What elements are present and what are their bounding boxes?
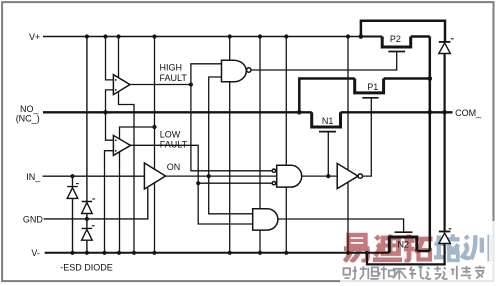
char xun [463, 235, 490, 262]
wire comparator U1 minus input to NO_ and U2 plus input [106, 90, 114, 140]
svg-text:-ESD DIODE: -ESD DIODE [60, 262, 113, 272]
junction V- / U2 supply [117, 251, 121, 255]
label watermark char she2 [426, 266, 441, 279]
svg-text:N2: N2 [398, 240, 410, 250]
svg-text:N1: N1 [322, 116, 334, 126]
transistor P2 source lead [361, 36, 382, 38]
char di [373, 236, 402, 260]
AND gate U6 [253, 209, 278, 230]
diode D2 ESD GND to V+ [82, 37, 93, 219]
node LOW FAULT junction [196, 181, 200, 185]
junction V+ / U2 U3 supply [152, 34, 156, 38]
buffer U3 ON [144, 163, 165, 189]
wire AND U6 output to N2 gate [278, 219, 404, 232]
wire HIGH FAULT column to NAND input and AND U5 input [191, 64, 272, 171]
node COM_ line [341, 111, 453, 113]
transistor P2 channel [382, 37, 411, 48]
label watermark char he [377, 266, 395, 279]
svg-text:COM_: COM_ [455, 108, 482, 118]
junction V+ / U7 supply [346, 34, 350, 38]
junction COM_ / clamp diodes [442, 110, 447, 115]
wire P2 P1 drain column to COM_ and N2 [429, 37, 432, 252]
char pei [434, 234, 460, 258]
wire inverter output up to P1 gate [363, 98, 372, 176]
wire U1 supply V+ down and V- jog [119, 37, 135, 253]
wire U1 output to HIGH FAULT node [130, 84, 191, 86]
svg-text:NO_: NO_ [20, 104, 40, 114]
svg-text:V-: V- [31, 248, 40, 258]
comparator input polarity marks [115, 79, 117, 151]
node GND rail [44, 188, 148, 219]
label watermark char tian [393, 269, 407, 280]
circuit line work [43, 37, 404, 253]
junction V+ / U1 supply [116, 34, 120, 38]
diode D4 anode to COM_ [444, 54, 446, 113]
diode D5 bottom clamp to V- [439, 231, 451, 233]
diode D5 to V- rail [444, 244, 446, 254]
wire LOW FAULT branch into U5 lower bubble [198, 182, 272, 184]
junction V- / D5 bypass [365, 251, 369, 255]
gate symbols drawn over supply columns [113, 60, 362, 230]
wire U2 supply V+ horizontal and down [120, 127, 155, 253]
svg-text:FAULT: FAULT [160, 73, 188, 83]
watermark line2 white backing (over circuit) [340, 221, 496, 286]
wire ON buffer supply column V+ to V- [154, 37, 156, 253]
transistor P1 drain lead [384, 77, 430, 80]
comparator U2 LOW FAULT [113, 135, 130, 155]
junction V- / U2 minus input [102, 251, 106, 255]
diode D3 ESD V- to GND [82, 219, 93, 253]
svg-text:GND: GND [23, 214, 44, 224]
junction V+ / P2 source [359, 34, 364, 39]
watermark logo line1 characters (under circuit) [344, 234, 490, 262]
label watermark char jia [475, 266, 485, 279]
wire U5 output to inverter and N1 gate [302, 132, 338, 177]
node V- rail [45, 252, 390, 254]
wire NAND U4 supply column [229, 37, 231, 253]
node NO_ rail [43, 111, 312, 113]
label watermark char she [344, 266, 358, 279]
node IN_ rail [43, 175, 145, 177]
svg-text:ON: ON [167, 162, 181, 172]
wire V- bypass to bottom diode D5 anode [367, 252, 445, 265]
diode D4 top clamp to V+ [439, 41, 451, 43]
wire ON output to NAND lower input and AND U6 upper input [209, 77, 253, 214]
junction V+ / U5 supply [284, 34, 288, 38]
wire U2 output LOW FAULT to AND U5 and AND U6 [131, 145, 253, 224]
thick switch-path wiring [299, 21, 452, 254]
transistor P1 gate bar [362, 97, 378, 99]
junction GND / D2 D3 [85, 217, 89, 221]
diode D1 ESD at IN_ [67, 176, 78, 253]
node N1 gate drive junction [326, 174, 330, 178]
junction V- / U1 supply [132, 251, 136, 255]
junction NO_ / comparator inputs [103, 110, 107, 114]
transistor P2 drain lead [411, 35, 430, 38]
junction NO_ / P1 source [297, 110, 302, 115]
node ON junction [207, 174, 211, 178]
transistor P2 gate bar [388, 51, 405, 53]
node HIGH FAULT junction [189, 82, 193, 86]
node U2 supply tap junction [152, 125, 156, 129]
inverter U7 [337, 163, 358, 188]
junction COM_ / switch drain column [428, 110, 433, 115]
svg-text:P1: P1 [367, 82, 378, 92]
NAND gate U4 [222, 60, 247, 82]
transistor N2 gate bar [395, 231, 413, 233]
junction V- / D3 anode [85, 251, 89, 255]
comparator U1 HIGH FAULT [113, 75, 130, 95]
diode D4 top lead [444, 42, 446, 54]
label watermark char pin [360, 266, 379, 279]
wire AND U5 supply column [285, 37, 287, 253]
junction V- / U6 supply [258, 251, 262, 255]
svg-text:(NC_): (NC_) [16, 114, 40, 124]
AND gate U5 (3-input with 2 bubbles) [277, 165, 302, 187]
node V+ rail [43, 36, 361, 38]
junction V- / U5 supply [284, 251, 288, 255]
svg-text:P2: P2 [390, 34, 401, 44]
svg-text:V+: V+ [29, 32, 40, 42]
transistor N1 gate bar [319, 131, 336, 133]
junction V+ / U4 supply [228, 34, 232, 38]
char yi [349, 235, 366, 246]
wire comparator U2 minus input to V- [105, 151, 114, 253]
transistor N2 channel [389, 237, 417, 253]
small diode tick marks [76, 39, 454, 229]
svg-text:IN_: IN_ [26, 172, 41, 182]
junction V- / U7 supply [346, 251, 350, 255]
diode symbols [67, 37, 450, 253]
wire V+ thick link to top diode [361, 21, 445, 42]
wire inverter U7 supply column [347, 37, 349, 253]
label watermark char zhuan [461, 266, 472, 279]
junction IN_ / D1 [70, 174, 74, 178]
transistor N1 channel [312, 112, 341, 127]
svg-text:HIGH: HIGH [160, 62, 183, 72]
transistor P1 source lead from NO_ [299, 79, 354, 113]
transistor P1 channel [355, 79, 384, 93]
junction V- / D1 [70, 251, 74, 255]
wire comparator U1 plus input from V+ [106, 37, 114, 80]
wire AND U6 supply column [259, 37, 261, 253]
junction V- / U4 supply [228, 251, 232, 255]
label watermark char xian [409, 266, 424, 279]
wire NAND output to P2 gate [251, 52, 397, 71]
diode D5 cathode lead from COM_ [444, 112, 446, 231]
wire ON buffer output [166, 175, 277, 177]
svg-text:LOW: LOW [160, 129, 181, 139]
svg-text:FAULT: FAULT [160, 139, 188, 149]
junction P1 drain / P2 drain [428, 76, 433, 81]
junction V+ / U1 plus input [103, 34, 107, 38]
label watermark char ji [442, 266, 456, 280]
junction V+ / U6 supply [258, 34, 262, 38]
junction V+ / D2 cathode [85, 34, 89, 38]
transistor N2 drain lead [417, 250, 430, 253]
char tuo [404, 235, 433, 262]
junction V- / U3 supply [152, 251, 156, 255]
